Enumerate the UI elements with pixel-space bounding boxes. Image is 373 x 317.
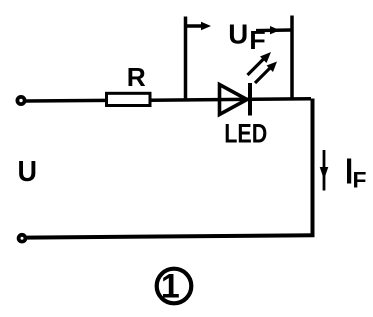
label IF (forward current)	[347, 159, 351, 184]
wire: bottom return	[26, 235, 315, 237]
UF measurement: left reference line	[184, 17, 188, 101]
svg-text:U: U	[18, 156, 38, 188]
svg-text:R: R	[127, 62, 146, 92]
terminal T1 (top-left input)	[17, 97, 24, 104]
svg-text:F: F	[353, 167, 367, 192]
svg-text:LED: LED	[224, 119, 267, 149]
LED D1 cathode bar	[248, 83, 252, 116]
LED light-emission arrow 1	[248, 52, 272, 75]
figure number 1 (circled)	[157, 268, 192, 306]
current arrow IF (pointing down)	[320, 150, 329, 191]
wire: resistor R to right corner (through LED)	[150, 99, 311, 101]
UF arrow (left segment, pointing right)	[186, 22, 211, 30]
UF measurement: right reference line	[290, 16, 294, 101]
terminal T2 (bottom-left input)	[19, 235, 26, 242]
svg-text:1: 1	[161, 268, 180, 306]
resistor R	[107, 93, 151, 105]
svg-text:U: U	[228, 18, 248, 49]
LED light-emission arrow 2	[255, 62, 277, 84]
wire: right vertical (cathode side down)	[311, 99, 315, 237]
svg-text:F: F	[249, 25, 265, 55]
UF arrow (right segment, pointing right)	[256, 26, 291, 34]
wire: terminal T1 to resistor R	[26, 99, 108, 103]
LED D1 anode triangle	[220, 85, 248, 115]
